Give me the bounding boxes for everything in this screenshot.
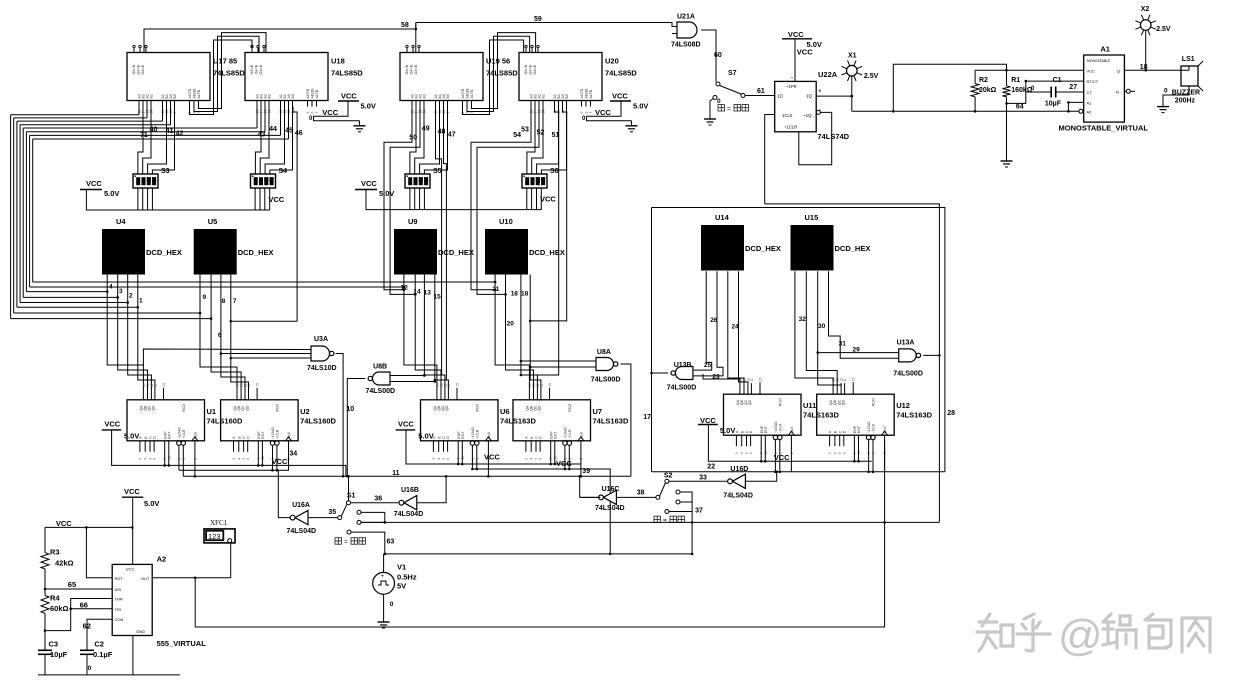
svg-text:74LS04D: 74LS04D: [595, 505, 625, 512]
svg-text:~LOAD: ~LOAD: [564, 427, 568, 439]
svg-text:RCO: RCO: [182, 404, 186, 412]
svg-text:11: 11: [392, 470, 400, 477]
svg-text:A1: A1: [1087, 100, 1093, 105]
svg-text:20: 20: [507, 320, 515, 327]
svg-text:15: 15: [548, 383, 552, 387]
svg-text:15: 15: [456, 383, 460, 387]
wire 1Q to X1 node: [816, 95, 852, 97]
svg-text:U2: U2: [300, 407, 310, 416]
wires U20 B inputs to S6: [527, 107, 535, 175]
svg-text:11: 11: [750, 378, 754, 382]
wires display U4 pins: [106, 275, 108, 292]
svg-text:4: 4: [833, 452, 837, 454]
wire 58: [144, 23, 416, 53]
watermark: [982, 614, 990, 626]
svg-text:5.0V: 5.0V: [124, 431, 139, 440]
svg-text:15: 15: [256, 383, 260, 387]
svg-text:CT: CT: [1087, 90, 1093, 95]
svg-text:VCC: VCC: [788, 30, 804, 39]
wires display U5 pins: [199, 275, 201, 314]
long wire to A2 pin of A1: [852, 110, 1077, 112]
svg-text:AEQB: AEQB: [585, 88, 589, 99]
svg-text:S6: S6: [550, 168, 559, 175]
svg-text:Q: Q: [1117, 68, 1120, 73]
wires display U14 pins: [693, 271, 712, 370]
svg-text:U8A: U8A: [597, 349, 611, 356]
svg-text:RCO: RCO: [779, 398, 783, 406]
svg-text:QD: QD: [748, 399, 752, 405]
svg-text:7: 7: [315, 112, 319, 114]
svg-text:74LS85D: 74LS85D: [331, 69, 363, 78]
buzzer LS1 200Hz: [1181, 66, 1198, 86]
svg-text:200Hz: 200Hz: [1175, 97, 1196, 104]
wire 66 TRI: [71, 608, 113, 610]
svg-text:U21A: U21A: [677, 14, 695, 21]
svg-text:9: 9: [203, 294, 207, 301]
svg-text:U18: U18: [331, 57, 345, 66]
wire 33: [669, 480, 727, 482]
svg-text:~1CLR: ~1CLR: [784, 125, 797, 130]
svg-text:61: 61: [757, 88, 765, 95]
svg-text:QD: QD: [841, 399, 845, 405]
svg-text:VCC: VCC: [797, 47, 813, 56]
NAND gate U3A 74LS10D: [311, 346, 330, 361]
svg-text:49: 49: [422, 126, 430, 133]
svg-text:20kΩ: 20kΩ: [979, 87, 997, 94]
wire 64: [1007, 81, 1026, 103]
svg-text:=: =: [727, 106, 731, 113]
display U5 DCD_HEX: [194, 229, 237, 275]
svg-text:U8B: U8B: [373, 363, 387, 370]
display U9 DCD_HEX: [394, 229, 437, 275]
svg-text:U5: U5: [208, 217, 218, 226]
svg-text:B0: B0: [565, 94, 569, 98]
svg-text:VCC: VCC: [595, 108, 611, 117]
DIP switch S5: [405, 174, 430, 188]
svg-text:5.0V: 5.0V: [361, 101, 376, 110]
svg-text:MONOSTABLE: MONOSTABLE: [1087, 59, 1111, 63]
svg-text:41: 41: [166, 128, 174, 135]
wires display U10 pins: [495, 275, 529, 390]
wire U18 outputs to VCC: [314, 101, 349, 116]
switch S7 bottom contacts: [676, 490, 680, 494]
svg-text:VCC: VCC: [361, 179, 377, 188]
svg-text:23: 23: [712, 374, 720, 381]
wire U16A output to counters: [278, 470, 292, 517]
svg-text:~LOAD: ~LOAD: [271, 427, 275, 439]
svg-text:74LS74D: 74LS74D: [817, 132, 849, 141]
svg-text:CON: CON: [115, 617, 124, 622]
svg-text:U12: U12: [896, 401, 910, 410]
svg-text:18: 18: [521, 290, 529, 297]
svg-text:AEQB: AEQB: [466, 88, 470, 99]
svg-text:U3A: U3A: [314, 336, 328, 343]
svg-text:21: 21: [492, 286, 500, 293]
wire 59: [416, 23, 677, 27]
wires display U9 pins: [404, 275, 437, 390]
svg-text:U10: U10: [499, 217, 513, 226]
switch S1: [308, 517, 338, 519]
svg-text:QD: QD: [538, 405, 542, 411]
svg-text:51: 51: [552, 132, 560, 139]
wire OUT: [152, 577, 231, 579]
svg-text:D: D: [246, 436, 250, 439]
svg-text:8: 8: [222, 298, 226, 305]
switch middle contacts: [357, 510, 361, 514]
svg-text:30: 30: [818, 323, 826, 330]
svg-text:13: 13: [424, 289, 432, 296]
svg-text:11: 11: [539, 384, 543, 388]
long wire 627 clock: [195, 441, 884, 627]
wires U17 B inputs to S3: [138, 107, 143, 175]
svg-text:6: 6: [749, 452, 753, 454]
svg-text:=: =: [344, 539, 348, 546]
svg-text:DCD_HEX: DCD_HEX: [529, 248, 565, 257]
svg-text:0: 0: [88, 665, 92, 672]
svg-text:U14: U14: [715, 213, 730, 222]
wire U16B input up: [417, 476, 446, 502]
NAND gate U13A 74LS00D: [899, 349, 917, 362]
svg-text:74LS04D: 74LS04D: [287, 528, 317, 535]
wire loop top right: [893, 64, 1006, 111]
svg-text:43: 43: [258, 132, 266, 139]
switch S7: [716, 82, 720, 86]
wire 28 from U13A output: [923, 355, 939, 521]
svg-text:0: 0: [1164, 88, 1168, 95]
svg-text:D: D: [749, 430, 753, 433]
svg-text:7: 7: [233, 298, 237, 305]
svg-text:~1Q: ~1Q: [803, 113, 812, 118]
svg-text:0.5Hz: 0.5Hz: [397, 573, 417, 582]
svg-text:B2: B2: [542, 94, 546, 98]
svg-text:ALTB: ALTB: [589, 89, 593, 98]
svg-text:54: 54: [513, 132, 521, 139]
svg-text:1: 1: [139, 298, 143, 305]
svg-text:=: =: [663, 517, 667, 524]
svg-text:3: 3: [119, 288, 123, 295]
wire into U16C switch S2: [616, 496, 656, 498]
svg-text:S2: S2: [664, 472, 673, 479]
wires U18 B inputs to S4: [255, 107, 261, 175]
svg-text:MONOSTABLE_VIRTUAL: MONOSTABLE_VIRTUAL: [1059, 124, 1149, 133]
svg-text:VCC: VCC: [1087, 68, 1096, 73]
svg-text:OA=B: OA=B: [255, 64, 259, 74]
svg-text:U13A: U13A: [897, 340, 915, 347]
wire clock loop top: [765, 204, 940, 356]
wire THR: [45, 599, 112, 631]
svg-text:AGTB: AGTB: [306, 88, 310, 98]
svg-text:45: 45: [285, 127, 293, 134]
svg-text:74LS08D: 74LS08D: [671, 42, 701, 49]
svg-text:S4: S4: [279, 168, 288, 175]
svg-text:63: 63: [387, 538, 395, 545]
svg-text:2.5V: 2.5V: [864, 73, 879, 80]
svg-text:U6: U6: [500, 407, 510, 416]
svg-text:RCO: RCO: [476, 404, 480, 412]
svg-text:15: 15: [759, 377, 763, 381]
monostable A1 MONOSTABLE_VIRTUAL: [1084, 55, 1125, 122]
svg-text:ENT: ENT: [764, 425, 768, 433]
svg-text:6: 6: [153, 458, 157, 460]
svg-text:D: D: [446, 436, 450, 439]
wire RT/CT: [1026, 80, 1084, 82]
svg-text:5: 5: [580, 112, 584, 114]
svg-text:U9: U9: [408, 217, 418, 226]
svg-text:VCC: VCC: [272, 457, 288, 466]
svg-text:OUT: OUT: [141, 576, 150, 581]
svg-text:ENT: ENT: [261, 431, 265, 439]
wires U19 B inputs to S5: [410, 107, 416, 175]
svg-text:38: 38: [637, 489, 645, 496]
wire 10 from U3A output: [336, 354, 344, 477]
wire 60: [701, 30, 716, 80]
svg-text:~LOAD: ~LOAD: [774, 421, 778, 433]
svg-text:U1: U1: [207, 407, 217, 416]
svg-text:5.0V: 5.0V: [720, 426, 735, 435]
svg-text:OA>B: OA>B: [524, 64, 528, 74]
svg-text:OA<B: OA<B: [533, 64, 537, 74]
svg-text:U7: U7: [593, 407, 603, 416]
svg-text:53: 53: [521, 126, 529, 133]
svg-text:52: 52: [537, 129, 545, 136]
svg-text:U17 85: U17 85: [213, 57, 237, 66]
svg-text:11: 11: [247, 384, 251, 388]
ground below buzzer: [1163, 86, 1189, 102]
svg-text:C2: C2: [94, 640, 104, 649]
wire S1 riser: [348, 476, 350, 500]
svg-text:11: 11: [153, 384, 157, 388]
svg-text:A2: A2: [157, 555, 167, 564]
svg-text:U20: U20: [605, 57, 619, 66]
svg-text:14: 14: [413, 289, 421, 296]
svg-text:B0: B0: [173, 94, 177, 98]
svg-text:5: 5: [306, 112, 310, 114]
wire 36: [351, 502, 399, 504]
wire U8B output: [347, 379, 365, 477]
wire 17 from U8A output: [621, 364, 631, 476]
wire 39 vertical: [580, 476, 601, 497]
svg-text:2: 2: [129, 293, 133, 300]
svg-text:ENT: ENT: [461, 431, 465, 439]
bus wires middle comparators: [384, 107, 412, 290]
svg-text:VCC: VCC: [556, 459, 572, 468]
svg-text:10µF: 10µF: [1045, 100, 1062, 107]
svg-text:48: 48: [438, 129, 446, 136]
svg-text:DCD_HEX: DCD_HEX: [146, 248, 182, 257]
svg-text:VCC: VCC: [124, 487, 140, 496]
svg-text:X1: X1: [848, 52, 857, 59]
wire A1 pin: [1068, 102, 1083, 111]
svg-text:4: 4: [144, 458, 148, 460]
svg-text:4: 4: [109, 284, 113, 291]
svg-text:5.0V: 5.0V: [379, 189, 394, 198]
long wire 552: [385, 553, 692, 555]
svg-text:DCD_HEX: DCD_HEX: [835, 244, 871, 253]
svg-text:OA>B: OA>B: [405, 64, 409, 74]
svg-text:B0: B0: [291, 94, 295, 98]
svg-text:0: 0: [390, 601, 394, 608]
svg-text:DCD_HEX: DCD_HEX: [745, 244, 781, 253]
resistor R4 60k: [41, 596, 49, 614]
svg-text:AEQB: AEQB: [311, 88, 315, 99]
wire U13B output loop: [652, 372, 669, 374]
svg-text:31: 31: [839, 341, 847, 348]
svg-text:4: 4: [740, 452, 744, 454]
resistor R3 42k: [44, 527, 46, 552]
counter U12 74LS163D: [817, 394, 895, 435]
svg-text:VCC: VCC: [774, 453, 790, 462]
svg-text:6: 6: [218, 332, 222, 339]
ground below S7: [713, 96, 717, 100]
wire 65 DIS: [45, 569, 112, 589]
svg-text:LS1: LS1: [1182, 56, 1195, 63]
wires under U1 U2: [164, 452, 166, 466]
svg-text:58: 58: [401, 22, 409, 29]
svg-text:5.0V: 5.0V: [104, 189, 119, 198]
svg-text:46: 46: [295, 130, 303, 137]
svg-text:VCC: VCC: [86, 179, 102, 188]
svg-text:74LS85D: 74LS85D: [486, 69, 518, 78]
svg-text:74LS163D: 74LS163D: [500, 416, 536, 425]
svg-text:50: 50: [409, 134, 417, 141]
svg-text:64: 64: [1016, 104, 1024, 111]
svg-text:3: 3: [138, 458, 142, 460]
NAND gate U8A 74LS00D: [596, 358, 614, 371]
svg-text:OA=B: OA=B: [137, 64, 141, 74]
comparator U18 74LS85D: [245, 53, 328, 101]
svg-text:RT/CT: RT/CT: [1087, 79, 1099, 84]
svg-text:A1: A1: [1100, 45, 1110, 54]
svg-text:74LS163D: 74LS163D: [803, 411, 839, 420]
svg-text:555_VIRTUAL: 555_VIRTUAL: [157, 639, 207, 648]
counter U11 74LS163D: [724, 394, 802, 435]
svg-text:160kΩ: 160kΩ: [1011, 87, 1033, 94]
svg-text:VCC: VCC: [104, 420, 120, 429]
svg-text:29: 29: [853, 347, 861, 354]
svg-text:66: 66: [80, 601, 88, 610]
svg-text:59: 59: [534, 16, 542, 23]
svg-text:4: 4: [437, 458, 441, 460]
svg-text:47: 47: [448, 132, 456, 139]
svg-text:+: +: [381, 574, 385, 580]
svg-text:U16C: U16C: [602, 486, 620, 493]
display U15 DCD_HEX: [791, 225, 834, 271]
wire VCC line to A1: [975, 69, 1084, 71]
svg-text:GND: GND: [136, 629, 145, 634]
svg-text:VCC: VCC: [398, 420, 414, 429]
svg-text:THR: THR: [115, 597, 123, 602]
capacitor C1 10uF: [1050, 87, 1052, 98]
svg-text:~LOAD: ~LOAD: [867, 421, 871, 433]
svg-text:DCD_HEX: DCD_HEX: [238, 248, 274, 257]
svg-text:~CLR: ~CLR: [182, 429, 186, 439]
svg-text:26: 26: [710, 317, 718, 324]
display U14 DCD_HEX: [701, 225, 744, 271]
svg-text:2.5V: 2.5V: [1156, 26, 1171, 33]
svg-text:U4: U4: [116, 217, 126, 226]
svg-text:~CLR: ~CLR: [276, 429, 280, 439]
svg-text:5V: 5V: [397, 582, 406, 591]
svg-text:74LS85D: 74LS85D: [605, 69, 637, 78]
svg-text:QD: QD: [245, 405, 249, 411]
svg-text:1D: 1D: [777, 94, 784, 99]
cascade wires U17 to U18: [190, 40, 253, 115]
svg-text:B2: B2: [268, 94, 272, 98]
wire 62 CON: [87, 619, 112, 650]
svg-text:6: 6: [246, 458, 250, 460]
svg-text:5.0V: 5.0V: [418, 431, 433, 440]
svg-text:B0: B0: [446, 94, 450, 98]
svg-text:~LOAD: ~LOAD: [178, 427, 182, 439]
svg-text:U13B: U13B: [674, 362, 692, 369]
svg-text:17: 17: [643, 414, 651, 421]
svg-text:C3: C3: [49, 640, 59, 649]
svg-text:~CLR: ~CLR: [778, 424, 782, 434]
svg-text:15: 15: [162, 383, 166, 387]
svg-text:36: 36: [374, 495, 382, 502]
svg-text:R1: R1: [1011, 77, 1020, 84]
svg-text:6: 6: [446, 458, 450, 460]
svg-text:10µF: 10µF: [50, 650, 68, 659]
svg-text:VCC: VCC: [484, 453, 500, 462]
svg-text:44: 44: [269, 126, 277, 133]
resistor R1 160k: [1003, 86, 1011, 97]
bus wires left comparators: [11, 114, 139, 116]
svg-text:27: 27: [1069, 84, 1077, 91]
svg-text:@: @: [1058, 611, 1103, 660]
capacitor C3 10uF: [38, 649, 52, 651]
svg-text:6: 6: [585, 112, 589, 114]
U22A feedback wire ~1Q to ~1CLR: [799, 112, 832, 164]
svg-text:OA<B: OA<B: [141, 64, 145, 74]
svg-text:OA=B: OA=B: [410, 64, 414, 74]
svg-text:3: 3: [232, 458, 236, 460]
svg-text:123: 123: [208, 532, 221, 541]
svg-text:XFC1: XFC1: [210, 519, 228, 527]
svg-text:R2: R2: [979, 77, 988, 84]
bus bottom horizontals: [33, 281, 495, 283]
U22A clock wire: [765, 115, 775, 204]
svg-text:D: D: [842, 430, 846, 433]
svg-text:D: D: [539, 436, 543, 439]
svg-text:AGTB: AGTB: [461, 88, 465, 98]
svg-text:DIS: DIS: [115, 587, 122, 592]
wire U16C output: [580, 496, 601, 498]
ground below R1: [1006, 156, 1008, 161]
svg-text:VCC: VCC: [56, 519, 72, 528]
ground wire at U20: [587, 116, 632, 121]
flip-flop U22A 74LS74D: [775, 81, 817, 131]
svg-text:60kΩ: 60kΩ: [50, 604, 69, 613]
svg-text:B2: B2: [150, 94, 154, 98]
wire RST: [86, 527, 112, 577]
svg-text:1Q: 1Q: [806, 94, 813, 99]
svg-text:U15: U15: [805, 213, 819, 222]
svg-text:D: D: [153, 436, 157, 439]
svg-text:42kΩ: 42kΩ: [55, 558, 74, 567]
svg-text:3: 3: [524, 458, 528, 460]
inverter U16D 74LS04D: [732, 474, 745, 488]
svg-text:6: 6: [311, 112, 315, 114]
capacitor C2 0.1uF: [80, 649, 94, 651]
svg-text:ALTB: ALTB: [315, 89, 319, 98]
svg-text:AEQB: AEQB: [193, 88, 197, 99]
long wire 522: [359, 521, 939, 523]
svg-text:OA>B: OA>B: [250, 64, 254, 74]
wires into U8A: [521, 360, 596, 362]
svg-text:ENT: ENT: [553, 431, 557, 439]
svg-text:62: 62: [83, 622, 91, 631]
